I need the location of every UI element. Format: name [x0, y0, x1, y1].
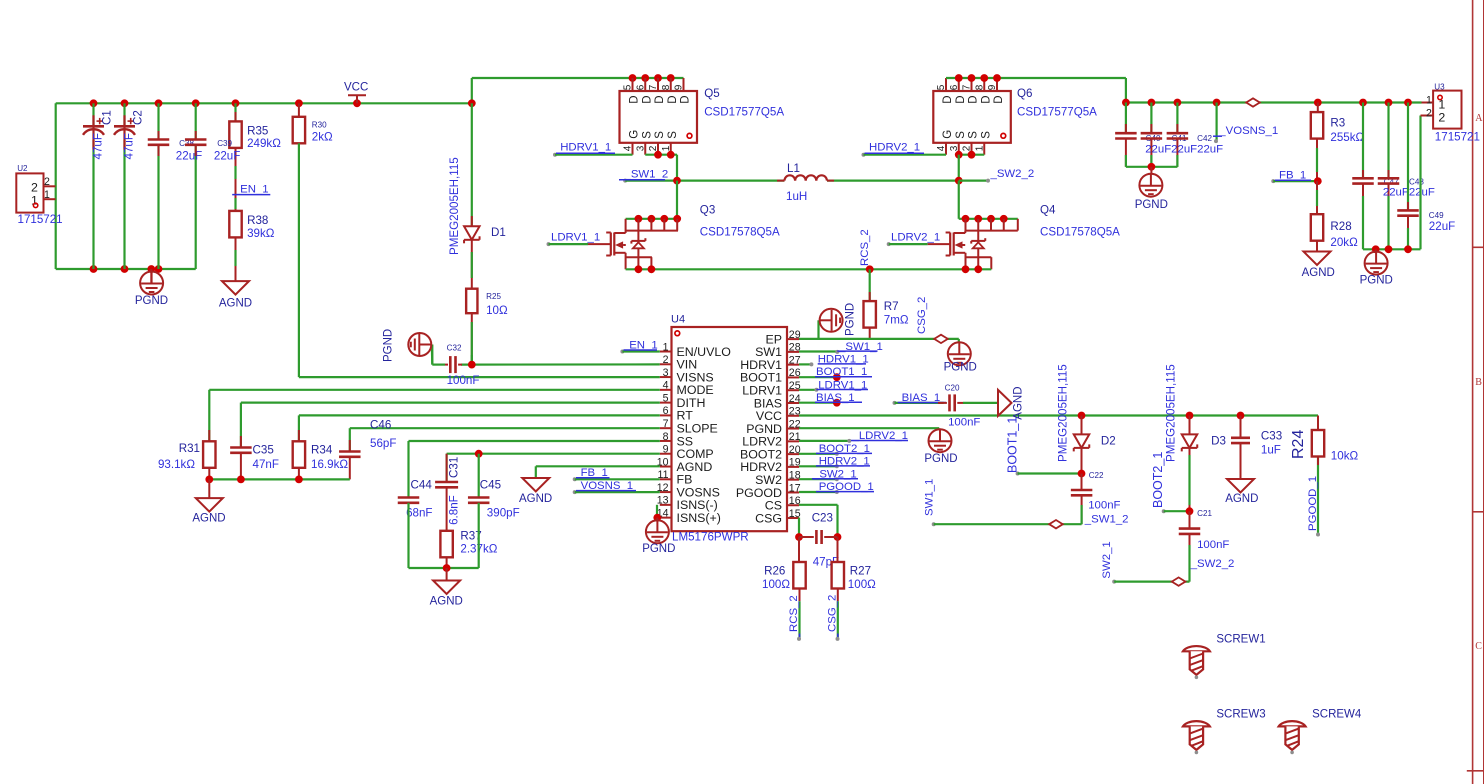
connector U3	[1421, 82, 1480, 143]
svg-text:D: D	[680, 95, 692, 103]
net label _VOSNS_1	[1213, 103, 1278, 144]
svg-text:1: 1	[31, 193, 38, 207]
net label HDRV2_1 at U4 pin 19	[799, 456, 870, 469]
svg-text:C20: C20	[945, 383, 960, 392]
power flag VCC	[344, 82, 368, 104]
svg-text:16.9kΩ: 16.9kΩ	[311, 458, 348, 471]
wire analog AGND rail	[205, 476, 349, 484]
svg-text:_SW2_2: _SW2_2	[990, 168, 1035, 180]
svg-text:9: 9	[663, 444, 669, 456]
resistor R7	[864, 269, 909, 339]
net label PGOOD_1 at U4 pin 17	[799, 481, 874, 494]
svg-text:100nF: 100nF	[447, 374, 480, 387]
svg-text:VOSNS_1: VOSNS_1	[581, 480, 634, 492]
wire CS net to C23	[799, 505, 841, 541]
net label _SW1_2	[619, 168, 668, 180]
capacitor C39	[185, 131, 240, 163]
svg-text:24: 24	[789, 393, 801, 405]
no-connect diamond on SW2 wire	[1172, 577, 1186, 585]
svg-text:100Ω: 100Ω	[848, 578, 876, 591]
svg-text:PGND: PGND	[1135, 199, 1168, 211]
wire C20 to AGND	[963, 402, 998, 404]
svg-text:G: G	[942, 130, 954, 139]
capacitor C33	[1231, 416, 1282, 480]
resistor R35	[229, 103, 281, 211]
svg-text:EN_1: EN_1	[629, 339, 658, 351]
svg-text:C: C	[1475, 641, 1482, 652]
resistor R37	[440, 530, 497, 568]
svg-text:C22: C22	[1089, 471, 1104, 480]
svg-text:R27: R27	[850, 564, 871, 577]
svg-text:_SW1_2: _SW1_2	[1084, 513, 1129, 525]
svg-text:PGND: PGND	[1360, 275, 1393, 287]
svg-text:D: D	[980, 95, 992, 103]
svg-text:Q4: Q4	[1040, 203, 1056, 216]
svg-text:D: D	[629, 95, 641, 103]
svg-text:S: S	[955, 131, 967, 139]
net label BIAS_1 at U4 pin 24	[799, 392, 862, 407]
svg-text:D: D	[968, 95, 980, 103]
svg-text:23: 23	[789, 406, 801, 418]
svg-text:255kΩ: 255kΩ	[1330, 131, 1364, 144]
svg-text:2: 2	[663, 354, 669, 366]
svg-text:PGND: PGND	[135, 295, 168, 307]
no-connect diamond on CSG wire	[934, 335, 948, 343]
svg-text:LM5176PWPR: LM5176PWPR	[672, 531, 749, 544]
wire COMP net	[447, 450, 660, 498]
svg-text:HDRV1_1: HDRV1_1	[560, 142, 611, 154]
svg-text:C48: C48	[1409, 177, 1424, 186]
svg-text:PGND: PGND	[642, 543, 675, 555]
ground PGND output caps	[1135, 167, 1168, 211]
svg-text:C1: C1	[101, 110, 114, 125]
svg-text:6.8nF: 6.8nF	[448, 495, 461, 525]
wire SW1_2 / SW2_2 rail	[623, 177, 990, 219]
net label RCS_2 vertical	[859, 229, 871, 266]
wire PGND U4 pin 22	[799, 428, 939, 429]
svg-text:U2: U2	[17, 164, 28, 173]
capacitor C47	[1352, 103, 1399, 250]
svg-text:5: 5	[623, 84, 634, 90]
ground AGND below C33	[1225, 479, 1258, 505]
svg-text:D: D	[942, 95, 954, 103]
svg-text:47nF: 47nF	[253, 458, 279, 471]
svg-text:9: 9	[674, 84, 685, 90]
wire ISNS join U4 pins 13-14	[653, 505, 661, 522]
ground PGND at U4 pin 14	[642, 518, 675, 555]
svg-text:3: 3	[663, 367, 669, 379]
mounting hole SCREW1	[1183, 634, 1266, 679]
capacitor C35	[230, 436, 279, 479]
svg-text:47uF: 47uF	[123, 133, 136, 159]
svg-text:390pF: 390pF	[487, 507, 520, 520]
diode D1	[448, 103, 506, 288]
svg-text:C39: C39	[217, 139, 232, 148]
capacitor C38	[148, 131, 202, 163]
resistor R3	[1311, 103, 1365, 182]
svg-text:7: 7	[663, 418, 669, 430]
svg-text:PGND: PGND	[924, 453, 957, 465]
svg-text:C23: C23	[812, 512, 833, 525]
svg-text:CSG_2: CSG_2	[827, 595, 839, 632]
inductor L1	[777, 162, 834, 203]
svg-text:LDRV1_1: LDRV1_1	[551, 231, 600, 243]
no-connect diamond on VOUT rail	[1246, 98, 1260, 106]
svg-text:R28: R28	[1330, 220, 1351, 233]
value labels 22uF x3	[1145, 144, 1223, 156]
svg-text:C46: C46	[370, 419, 391, 432]
resistor R27	[832, 537, 877, 601]
wire VIN sense to U4 pin 2	[432, 345, 660, 369]
wire C38 column	[157, 103, 159, 269]
svg-text:FB_1: FB_1	[581, 467, 608, 479]
net label _SW1_1 at U4 pin 28	[799, 341, 883, 354]
svg-text:D: D	[641, 95, 653, 103]
svg-text:CSD17578Q5A: CSD17578Q5A	[700, 225, 780, 238]
svg-text:R25: R25	[486, 292, 501, 301]
svg-text:249kΩ: 249kΩ	[247, 137, 281, 150]
svg-text:PGOOD_1: PGOOD_1	[819, 481, 874, 493]
svg-text:1: 1	[44, 189, 50, 201]
ground PGND input rail	[135, 269, 168, 307]
net label LDRV2_1 at Q4 gate	[887, 231, 951, 246]
resistor R31	[158, 430, 216, 479]
mounting hole SCREW4	[1279, 709, 1362, 755]
diode D2	[1057, 364, 1116, 473]
svg-text:D1: D1	[491, 226, 506, 239]
svg-text:_SW2_1: _SW2_1	[812, 468, 857, 480]
wire MODE net	[209, 390, 660, 442]
svg-text:8: 8	[663, 431, 669, 443]
transistor Q5 CSD17577Q5A	[620, 78, 785, 155]
net label _LDRV2_1 at U4 pin 21	[799, 430, 908, 443]
svg-text:VCC: VCC	[344, 82, 368, 94]
svg-text:B: B	[1475, 377, 1482, 388]
svg-text:21: 21	[789, 431, 801, 443]
svg-text:Q3: Q3	[700, 203, 715, 216]
svg-text:25: 25	[789, 380, 801, 392]
net label HDRV1_1 at Q5 gate	[553, 142, 633, 157]
svg-text:7: 7	[648, 84, 659, 90]
svg-text:22uF: 22uF	[214, 150, 240, 163]
svg-text:_SW1_1: _SW1_1	[838, 341, 883, 353]
svg-text:BIAS_1: BIAS_1	[902, 392, 941, 404]
svg-text:D: D	[993, 95, 1005, 103]
capacitor C1	[83, 110, 114, 159]
svg-text:R31: R31	[179, 442, 200, 455]
svg-text:R7: R7	[884, 300, 899, 313]
svg-text:27: 27	[789, 354, 801, 366]
svg-text:R38: R38	[247, 214, 268, 227]
capacitor C31	[435, 454, 460, 531]
ground PGND right of diamond	[944, 339, 977, 374]
svg-text:22uF22uF22uF: 22uF22uF22uF	[1145, 144, 1223, 156]
capacitor C22	[1071, 471, 1121, 524]
ground AGND below R28	[1302, 252, 1335, 280]
svg-text:_SW1_2: _SW1_2	[624, 168, 669, 180]
transistor Q6 CSD17577Q5A	[933, 78, 1097, 155]
svg-text:2: 2	[962, 145, 973, 151]
ground PGND at U4 pin 22	[924, 429, 957, 465]
capacitor C41	[1141, 103, 1187, 167]
net label EN_1 at U4 pin 1	[620, 339, 659, 353]
diode D3	[1165, 364, 1226, 511]
capacitor C23	[799, 512, 839, 569]
resistor R26	[762, 537, 806, 601]
capacitor C21	[1179, 509, 1230, 582]
resistor R34	[293, 430, 349, 479]
wire EP / SW1_1 row	[799, 320, 959, 339]
svg-text:G: G	[629, 130, 641, 139]
svg-text:SW2_1: SW2_1	[1101, 541, 1113, 578]
net label _EN_1	[232, 184, 270, 196]
ground AGND below R31	[192, 479, 225, 524]
svg-text:HDRV2_1: HDRV2_1	[819, 456, 870, 468]
net label BOOT1_1 wire	[1006, 417, 1086, 478]
wire output caps ground rail	[1126, 163, 1178, 171]
ground PGND at C32	[383, 329, 432, 362]
svg-text:SCREW1: SCREW1	[1216, 634, 1265, 646]
capacitor C46	[339, 419, 396, 480]
wire VIN top rail	[56, 74, 684, 273]
svg-text:4: 4	[663, 380, 669, 392]
svg-text:R35: R35	[247, 125, 268, 138]
svg-text:18: 18	[789, 469, 801, 481]
svg-text:2: 2	[1438, 111, 1445, 125]
svg-text:HDRV2_1: HDRV2_1	[869, 142, 920, 154]
wire SW1_1 to C22	[924, 479, 1082, 527]
resistor R24	[1290, 416, 1358, 535]
svg-text:L1: L1	[787, 162, 800, 175]
svg-text:ISNS(+): ISNS(+)	[677, 511, 721, 525]
wire RT net	[299, 415, 660, 441]
net label HDRV1_1 at U4 pin 27	[799, 353, 869, 366]
svg-text:100nF: 100nF	[948, 417, 980, 429]
svg-text:AGND: AGND	[192, 513, 225, 525]
svg-text:4: 4	[623, 145, 634, 151]
svg-text:D: D	[654, 95, 666, 103]
wire Q5 source bus to SW1	[645, 151, 677, 181]
svg-text:C42: C42	[1197, 134, 1212, 143]
wire SW2_1 to C21	[1101, 541, 1190, 583]
svg-text:8: 8	[974, 84, 985, 90]
capacitor C42	[1167, 103, 1213, 167]
svg-text:_SW2_2: _SW2_2	[1190, 558, 1235, 570]
capacitor C40	[1115, 103, 1161, 167]
net label VOSNS_1 at U4 pin 12	[573, 480, 660, 494]
svg-text:PGOOD_1: PGOOD_1	[1307, 476, 1319, 531]
svg-text:6: 6	[949, 84, 960, 90]
svg-text:5: 5	[936, 84, 947, 90]
net label FB_1 right section	[1271, 170, 1321, 185]
svg-text:C21: C21	[1197, 509, 1212, 518]
svg-text:PMEG2005EH,115: PMEG2005EH,115	[1165, 364, 1178, 462]
svg-text:U4: U4	[671, 314, 685, 326]
svg-text:D2: D2	[1101, 435, 1116, 448]
svg-text:9: 9	[987, 84, 998, 90]
wire analog AGND rail 2	[409, 503, 479, 572]
svg-text:2: 2	[648, 145, 659, 151]
svg-text:8: 8	[661, 84, 672, 90]
svg-text:S: S	[968, 131, 980, 139]
wire VOUT top rail	[946, 74, 1422, 106]
svg-text:S: S	[667, 131, 679, 139]
svg-text:2kΩ: 2kΩ	[312, 131, 333, 144]
svg-text:CSD17578Q5A: CSD17578Q5A	[1040, 225, 1120, 238]
ground AGND at U4 pin 10	[519, 478, 552, 505]
svg-text:10kΩ: 10kΩ	[1331, 449, 1359, 462]
svg-text:20kΩ: 20kΩ	[1330, 236, 1358, 249]
IC U4 LM5176PWPR	[657, 314, 801, 544]
svg-text:HDRV1_1: HDRV1_1	[818, 353, 869, 365]
svg-text:1: 1	[663, 341, 669, 353]
svg-text:D: D	[667, 95, 679, 103]
net label LDRV1_1 at Q3 gate	[547, 231, 612, 246]
svg-text:PGND: PGND	[383, 329, 395, 362]
ground AGND below R38	[219, 281, 252, 309]
svg-text:RCS_2: RCS_2	[788, 595, 800, 632]
svg-text:22: 22	[789, 418, 801, 430]
svg-text:1715721: 1715721	[18, 213, 63, 226]
capacitor C45	[468, 479, 520, 520]
svg-text:PGND: PGND	[845, 303, 857, 336]
svg-text:7: 7	[962, 84, 973, 90]
svg-text:4: 4	[936, 145, 947, 151]
svg-text:Q6: Q6	[1017, 87, 1032, 100]
svg-text:BOOT2_1: BOOT2_1	[1151, 452, 1165, 508]
capacitor C20	[938, 383, 980, 428]
value labels C47 C48	[1383, 187, 1435, 199]
svg-text:100nF: 100nF	[1088, 499, 1120, 511]
resistor R28	[1311, 181, 1358, 251]
wire right caps ground rail	[1363, 116, 1421, 254]
svg-text:C33: C33	[1261, 430, 1282, 443]
wire BIAS/VCC rail from U4 pin 23	[799, 412, 1318, 420]
svg-text:1715721: 1715721	[1435, 130, 1480, 143]
svg-text:AGND: AGND	[219, 298, 252, 310]
svg-text:2: 2	[44, 176, 50, 188]
svg-text:7mΩ: 7mΩ	[884, 313, 909, 326]
mounting hole SCREW3	[1183, 709, 1266, 755]
net label BIAS_1 at C20	[893, 392, 947, 405]
svg-text:13: 13	[657, 495, 669, 507]
wire CSG net to C23	[795, 518, 803, 541]
resistor R25	[466, 289, 508, 365]
svg-text:_LDRV2_1: _LDRV2_1	[852, 430, 909, 442]
svg-text:R24: R24	[1290, 430, 1307, 459]
transistor Q3 CSD17578Q5A	[606, 203, 780, 269]
wire SS net	[409, 441, 660, 498]
svg-text:C32: C32	[447, 344, 462, 353]
capacitor C44	[398, 479, 433, 520]
svg-text:20: 20	[789, 444, 801, 456]
svg-text:RCS_2: RCS_2	[859, 229, 871, 266]
capacitor C49	[1397, 103, 1455, 250]
svg-text:19: 19	[789, 457, 801, 469]
wire RCS source rail	[626, 265, 992, 273]
svg-text:10Ω: 10Ω	[486, 304, 508, 317]
wire SLOPE net	[350, 428, 660, 451]
net label _SW2_2 at C21	[1190, 558, 1235, 570]
svg-text:PMEG2005EH,115: PMEG2005EH,115	[1057, 364, 1070, 462]
svg-text:PMEG2005EH,115: PMEG2005EH,115	[448, 157, 461, 255]
transistor Q4 CSD17578Q5A	[946, 203, 1121, 269]
svg-text:S: S	[641, 131, 653, 139]
svg-text:Q5: Q5	[704, 87, 719, 100]
svg-text:68nF: 68nF	[406, 507, 432, 520]
svg-text:C31: C31	[448, 457, 461, 478]
svg-text:47uF: 47uF	[92, 133, 105, 159]
net label _SW2_2 right of SW2	[990, 168, 1035, 180]
svg-text:D3: D3	[1211, 435, 1226, 448]
svg-text:26: 26	[789, 367, 801, 379]
svg-text:1: 1	[661, 145, 672, 151]
svg-text:C35: C35	[253, 444, 274, 457]
svg-text:3: 3	[635, 145, 646, 151]
svg-text:R34: R34	[311, 444, 333, 457]
net label _SW1_2 at C22	[1084, 513, 1129, 525]
net label CSG_2 vertical	[916, 297, 928, 334]
svg-text:_VOSNS_1: _VOSNS_1	[1218, 125, 1278, 137]
svg-text:16: 16	[789, 495, 801, 507]
svg-text:AGND: AGND	[1302, 267, 1335, 279]
svg-text:R30: R30	[312, 121, 327, 130]
net label CSG_2 below R27	[827, 595, 840, 641]
svg-text:56pF: 56pF	[370, 437, 396, 450]
svg-text:1: 1	[974, 145, 985, 151]
svg-text:CSG_2: CSG_2	[916, 297, 928, 334]
svg-text:100nF: 100nF	[1197, 539, 1229, 551]
net label HDRV2_1 at Q6 gate	[862, 142, 947, 157]
resistor R38	[229, 211, 274, 281]
svg-text:S: S	[654, 131, 666, 139]
svg-text:BIAS_1: BIAS_1	[816, 392, 855, 404]
svg-text:93.1kΩ: 93.1kΩ	[158, 458, 195, 471]
ground AGND below R37	[430, 568, 463, 608]
wire AGND U4 pin 10	[536, 466, 660, 478]
svg-text:17: 17	[789, 482, 801, 494]
svg-text:LDRV2_1: LDRV2_1	[891, 231, 940, 243]
svg-text:C44: C44	[411, 479, 433, 492]
svg-text:5: 5	[663, 392, 669, 404]
svg-text:SCREW4: SCREW4	[1312, 709, 1362, 721]
svg-text:29: 29	[789, 329, 801, 341]
svg-text:SCREW3: SCREW3	[1216, 709, 1265, 721]
svg-text:1uF: 1uF	[1261, 444, 1281, 457]
svg-text:22uF: 22uF	[176, 150, 202, 163]
wire C1 column	[92, 103, 94, 269]
svg-text:CSG: CSG	[755, 511, 782, 525]
wire C2 column	[123, 103, 125, 269]
svg-text:C49: C49	[1429, 211, 1444, 220]
net label BOOT2_1 at U4 pin 20	[799, 443, 872, 456]
svg-text:1uH: 1uH	[786, 190, 807, 203]
svg-text:3: 3	[949, 145, 960, 151]
resistor R30	[293, 103, 333, 143]
wire C39 column	[195, 103, 197, 269]
svg-text:LDRV1_1: LDRV1_1	[818, 379, 867, 391]
capacitor C2	[114, 110, 145, 159]
svg-text:100Ω: 100Ω	[762, 578, 790, 591]
svg-text:AGND: AGND	[1225, 493, 1258, 505]
svg-text:R26: R26	[764, 564, 785, 577]
net label BOOT1_1 at U4 pin 26	[799, 366, 872, 381]
svg-text:2: 2	[1426, 108, 1432, 120]
svg-text:R3: R3	[1330, 116, 1345, 129]
svg-text:6: 6	[635, 84, 646, 90]
ground PGND at EP	[820, 303, 857, 336]
svg-text:BOOT2_1: BOOT2_1	[819, 443, 870, 455]
